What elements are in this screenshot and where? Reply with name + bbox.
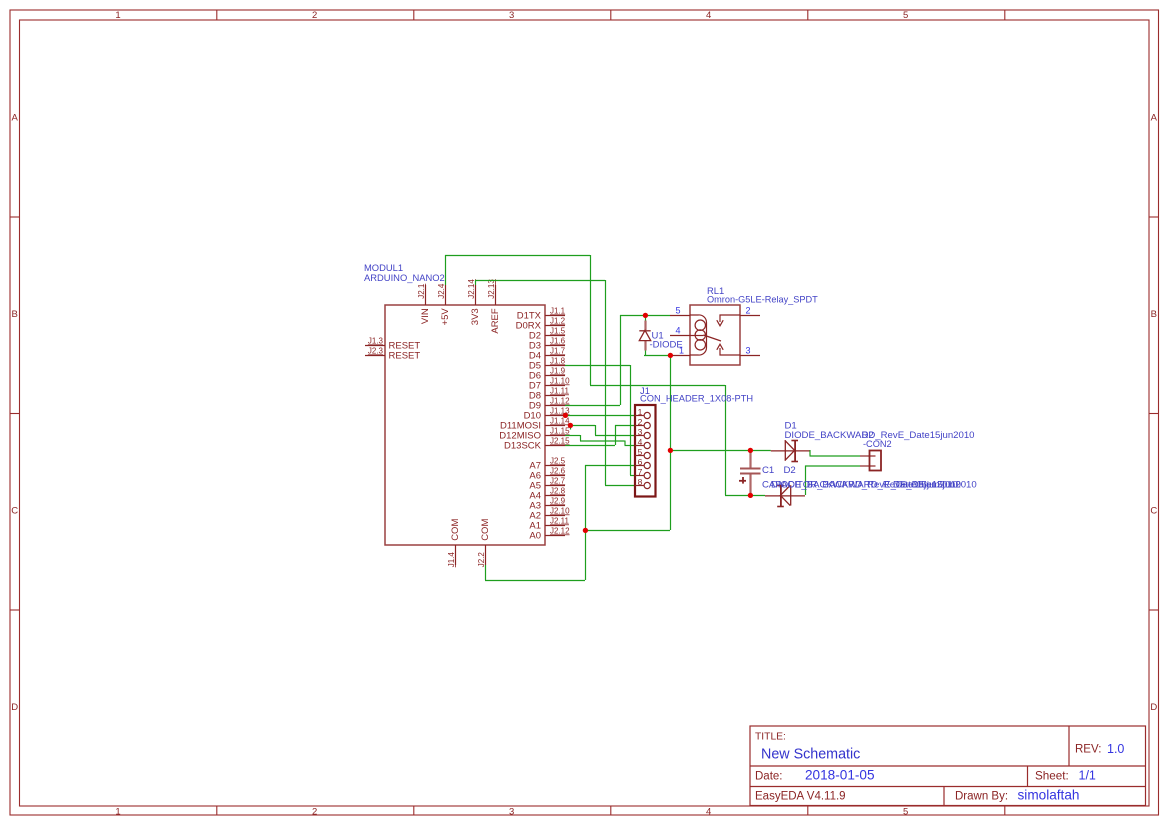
- svg-text:4: 4: [675, 326, 680, 336]
- svg-text:J2.4: J2.4: [437, 283, 446, 299]
- svg-text:3: 3: [509, 10, 514, 21]
- svg-text:VIN: VIN: [420, 308, 431, 324]
- wire +5V vertical x=725: [725, 385, 727, 495]
- svg-text:A: A: [1151, 112, 1158, 123]
- wire 3V3 vertical x=605: [605, 280, 607, 485]
- svg-text:New Schematic: New Schematic: [761, 747, 860, 763]
- wire relay pin5 rail y=315: [620, 315, 670, 317]
- svg-text:4: 4: [706, 10, 711, 21]
- svg-text:4: 4: [638, 437, 643, 447]
- svg-text:J2.10: J2.10: [550, 506, 570, 515]
- wire D5 horizontal: [565, 365, 630, 367]
- wire +5V pin stub up: [445, 255, 447, 285]
- relay RL1 Omron-G5LE-Relay_SPDT body: [690, 285, 818, 365]
- module top pin AREF (J2.13): [487, 279, 501, 334]
- wire D12MISO jog2: [624, 441, 626, 446]
- svg-text:J1.1: J1.1: [550, 306, 566, 315]
- svg-text:J2.9: J2.9: [550, 496, 566, 505]
- module right pin D11MOSI (J1.14): [500, 416, 570, 431]
- module left pin RESET (J1.3): [365, 336, 420, 351]
- svg-text:D2: D2: [784, 465, 796, 476]
- wire D12MISO jog1: [580, 435, 582, 441]
- wire GND junction to x670: [585, 530, 670, 532]
- wire D12MISO seg1: [565, 435, 580, 437]
- J1 pin 5: [635, 447, 650, 459]
- svg-text:J1.7: J1.7: [550, 346, 566, 355]
- J1 pin 3: [635, 427, 650, 439]
- svg-text:3: 3: [638, 427, 643, 437]
- wire U1 anode stub: [645, 351, 647, 356]
- svg-text:B: B: [1151, 309, 1157, 320]
- wire D1 cathode jog: [809, 450, 811, 456]
- svg-text:EasyEDA V4.11.9: EasyEDA V4.11.9: [755, 791, 846, 803]
- svg-text:D: D: [1150, 702, 1157, 713]
- svg-text:J2.8: J2.8: [550, 486, 566, 495]
- svg-text:J2.2: J2.2: [477, 552, 486, 568]
- svg-text:Omron-G5LE-Relay_SPDT: Omron-G5LE-Relay_SPDT: [707, 295, 818, 305]
- svg-text:C1: C1: [762, 465, 774, 476]
- wire +5V horizontal y=385: [590, 385, 725, 387]
- svg-text:J2.6: J2.6: [550, 466, 566, 475]
- svg-text:J1.12: J1.12: [550, 396, 570, 405]
- wire D11MOSI jog down: [595, 425, 597, 435]
- svg-text:B: B: [12, 309, 18, 320]
- svg-text:J1.10: J1.10: [550, 376, 570, 385]
- svg-text:Date15jun2010: Date15jun2010: [893, 480, 958, 491]
- module right pin A3 (J2.9): [529, 496, 565, 511]
- connector CON2: [860, 451, 881, 471]
- J1 pin 4: [635, 437, 650, 449]
- svg-text:7: 7: [638, 467, 643, 477]
- module top pin 3V3 (J2.14): [467, 279, 481, 326]
- svg-text:A0: A0: [529, 530, 541, 541]
- wire D2 to CON2 pin 2: [805, 465, 860, 467]
- svg-text:RESET: RESET: [389, 350, 421, 361]
- wire +5V top rail: [445, 255, 590, 257]
- svg-text:J1.2: J1.2: [550, 316, 566, 325]
- wire D11MOSI stub: [570, 425, 572, 430]
- svg-text:J1.11: J1.11: [550, 386, 570, 395]
- junction GND rail left: [668, 448, 673, 453]
- module right pin D0RX (J1.2): [516, 316, 566, 331]
- svg-text:REV:: REV:: [1075, 744, 1101, 756]
- svg-text:1: 1: [679, 346, 684, 356]
- module right pin D10 (J1.13): [524, 406, 571, 421]
- J1 pin 6: [635, 457, 650, 469]
- svg-text:J1.4: J1.4: [447, 552, 456, 568]
- svg-text:D: D: [11, 702, 18, 713]
- J1 pin 8: [635, 477, 650, 489]
- wire 3V3 pin stub up: [475, 280, 477, 285]
- wire D13SCK horizontal: [565, 445, 615, 447]
- module right pin A1 (J2.11): [529, 516, 569, 531]
- wire 3V3 top rail: [475, 280, 605, 282]
- svg-text:J2.1: J2.1: [417, 283, 426, 299]
- svg-text:J1.5: J1.5: [550, 326, 566, 335]
- diode D2 DIODE_BACKWARD (mirrored): [765, 485, 805, 507]
- svg-text:Date:: Date:: [755, 771, 783, 783]
- svg-text:D13SCK: D13SCK: [504, 440, 542, 451]
- wire GND vertical x=670: [670, 355, 672, 530]
- module right pin D13SCK (J2.15): [504, 436, 570, 451]
- J1 pin 7: [635, 467, 650, 479]
- wire GND U1 top stub: [645, 315, 647, 321]
- svg-text:1: 1: [115, 10, 120, 21]
- svg-text:J1.6: J1.6: [550, 336, 566, 345]
- title block: [750, 726, 1146, 806]
- module right pin D5 (J1.8): [529, 356, 566, 371]
- svg-text:J2.15: J2.15: [550, 436, 570, 445]
- svg-text:J2.12: J2.12: [550, 526, 570, 535]
- J1 pin 2: [635, 417, 650, 429]
- svg-text:2: 2: [312, 10, 317, 21]
- svg-text:Drawn By:: Drawn By:: [955, 791, 1008, 803]
- wire D5 vertical x=630: [630, 365, 632, 475]
- junction U1 cathode: [643, 313, 648, 318]
- module right pin D6 (J1.9): [529, 366, 566, 381]
- svg-text:AREF: AREF: [490, 308, 501, 334]
- module top pin VIN (J2.1): [417, 283, 431, 324]
- svg-text:1: 1: [638, 407, 643, 417]
- svg-text:2: 2: [638, 417, 643, 427]
- wire D13SCK to J1 pin 2: [615, 425, 636, 427]
- svg-text:C: C: [1150, 505, 1157, 516]
- svg-text:simolaftah: simolaftah: [1018, 788, 1080, 803]
- wire D9 vertical x=620: [620, 315, 622, 405]
- svg-text:J1.14: J1.14: [550, 416, 570, 425]
- module bottom pin COM (J1.4): [447, 519, 461, 568]
- junction U1 anode / relay pin1: [668, 353, 673, 358]
- module right pin D8 (J1.11): [529, 386, 570, 401]
- relay coil: [690, 315, 707, 355]
- svg-text:J1.3: J1.3: [368, 336, 384, 345]
- svg-text:5: 5: [675, 306, 680, 316]
- svg-text:1.0: 1.0: [1107, 742, 1124, 756]
- svg-text:ARDUINO_NANO2: ARDUINO_NANO2: [364, 272, 445, 283]
- svg-text:6: 6: [638, 457, 643, 467]
- svg-text:A: A: [12, 112, 19, 123]
- junction GND A-net: [583, 528, 588, 533]
- relay contacts: [690, 315, 740, 355]
- relay pin 4: [670, 326, 690, 336]
- diode D1 DIODE_BACKWARD: [771, 421, 975, 462]
- module bottom pin COM (J2.2): [477, 519, 491, 568]
- overlapping value labels of C1 and D2: [762, 480, 977, 491]
- relay pin 5: [670, 306, 690, 316]
- svg-text:J1.8: J1.8: [550, 356, 566, 365]
- svg-text:Sheet:: Sheet:: [1035, 770, 1069, 783]
- wire 3V3 to J1 pin 8: [605, 485, 636, 487]
- module right pin A2 (J2.10): [529, 506, 570, 521]
- module right pin A5 (J2.7): [529, 476, 565, 491]
- module right pin D2 (J1.5): [529, 326, 566, 341]
- svg-text:4: 4: [706, 806, 711, 817]
- junction at D10 pin: [563, 413, 568, 418]
- svg-text:J2.3: J2.3: [368, 346, 384, 355]
- svg-text:J2.7: J2.7: [550, 476, 566, 485]
- svg-text:CON_HEADER_1X08-PTH: CON_HEADER_1X08-PTH: [640, 394, 753, 404]
- module MODUL1 ARDUINO_NANO2 body: [364, 262, 545, 545]
- wire to J1 pin 6: [585, 465, 636, 467]
- relay pin 3: [740, 346, 760, 356]
- diode U1 -DIODE: [639, 321, 682, 351]
- module left pin RESET (J2.3): [365, 346, 420, 361]
- module top pin +5V (J2.4): [437, 283, 451, 325]
- wire U1 anode to relay pin1: [644, 355, 670, 357]
- connector J1 CON_HEADER_1X08-PTH body: [635, 385, 753, 497]
- wire D5 to J1 pin 7: [630, 475, 636, 477]
- svg-text:TITLE:: TITLE:: [755, 732, 786, 743]
- module right pin A6 (J2.6): [529, 466, 565, 481]
- svg-text:3V3: 3V3: [470, 308, 481, 325]
- module right pin A0 (J2.12): [529, 526, 570, 541]
- junction C1 bottom: [748, 493, 753, 498]
- relay pin 2: [740, 306, 760, 316]
- junction at D11MOSI pin: [568, 423, 573, 428]
- svg-text:5: 5: [638, 447, 643, 457]
- junction C1 top: [748, 448, 753, 453]
- svg-text:COM: COM: [480, 519, 491, 541]
- module right pin A7 (J2.5): [529, 456, 565, 471]
- wire D12MISO to J1 pin 4: [625, 445, 637, 447]
- wire D1 to CON2 pin 1: [810, 455, 861, 457]
- wire GND rail y=450: [670, 450, 771, 452]
- wire D9 horizontal: [565, 405, 620, 407]
- wire D2 anode vertical: [805, 466, 807, 496]
- svg-text:3: 3: [746, 346, 751, 356]
- svg-text:J2.13: J2.13: [487, 279, 496, 299]
- svg-text:5: 5: [903, 806, 908, 817]
- svg-text:+5V: +5V: [440, 308, 451, 326]
- svg-text:1/1: 1/1: [1079, 769, 1096, 783]
- svg-text:5: 5: [903, 10, 908, 21]
- svg-text:8: 8: [638, 477, 643, 487]
- svg-text:-CON2: -CON2: [863, 439, 892, 449]
- wire J1 pin6 vertical x=585: [585, 465, 587, 580]
- svg-text:J1.9: J1.9: [550, 366, 566, 375]
- svg-text:-DIODE: -DIODE: [650, 340, 683, 351]
- svg-text:J2.5: J2.5: [550, 456, 566, 465]
- svg-text:3: 3: [509, 806, 514, 817]
- module right pin D9 (J1.12): [529, 396, 570, 411]
- module right pin D1TX (J1.1): [517, 306, 566, 321]
- wire D11MOSI to J1 pin 3: [595, 435, 636, 437]
- svg-text:J2.14: J2.14: [467, 279, 476, 299]
- svg-text:J1.15: J1.15: [550, 426, 570, 435]
- wire COM horizontal y=580: [485, 580, 585, 582]
- svg-text:C: C: [11, 505, 18, 516]
- wire +5V rail y=495: [725, 495, 765, 497]
- relay pin 1: [670, 346, 690, 356]
- svg-text:J2.11: J2.11: [550, 516, 570, 525]
- module right pin D3 (J1.6): [529, 336, 566, 351]
- svg-text:1: 1: [115, 806, 120, 817]
- svg-text:COM: COM: [450, 519, 461, 541]
- module right pin A4 (J2.8): [529, 486, 565, 501]
- capacitor C1 (polarized): [739, 450, 796, 495]
- module right pin D12MISO (J1.15): [499, 426, 570, 441]
- svg-text:2018-01-05: 2018-01-05: [805, 768, 875, 783]
- svg-text:2: 2: [312, 806, 317, 817]
- J1 pin 1: [635, 407, 650, 419]
- wire COM stub down: [485, 565, 487, 580]
- module right pin D7 (J1.10): [529, 376, 570, 391]
- wire +5V vertical x=590: [590, 255, 592, 385]
- module right pin D4 (J1.7): [529, 346, 566, 361]
- wire D10 to J1 pin 1: [565, 415, 636, 417]
- wire D12MISO seg2: [580, 440, 625, 442]
- wire D13SCK vertical x=615: [615, 425, 617, 445]
- wire D11MOSI horizontal: [570, 425, 595, 427]
- svg-text:2: 2: [746, 306, 751, 316]
